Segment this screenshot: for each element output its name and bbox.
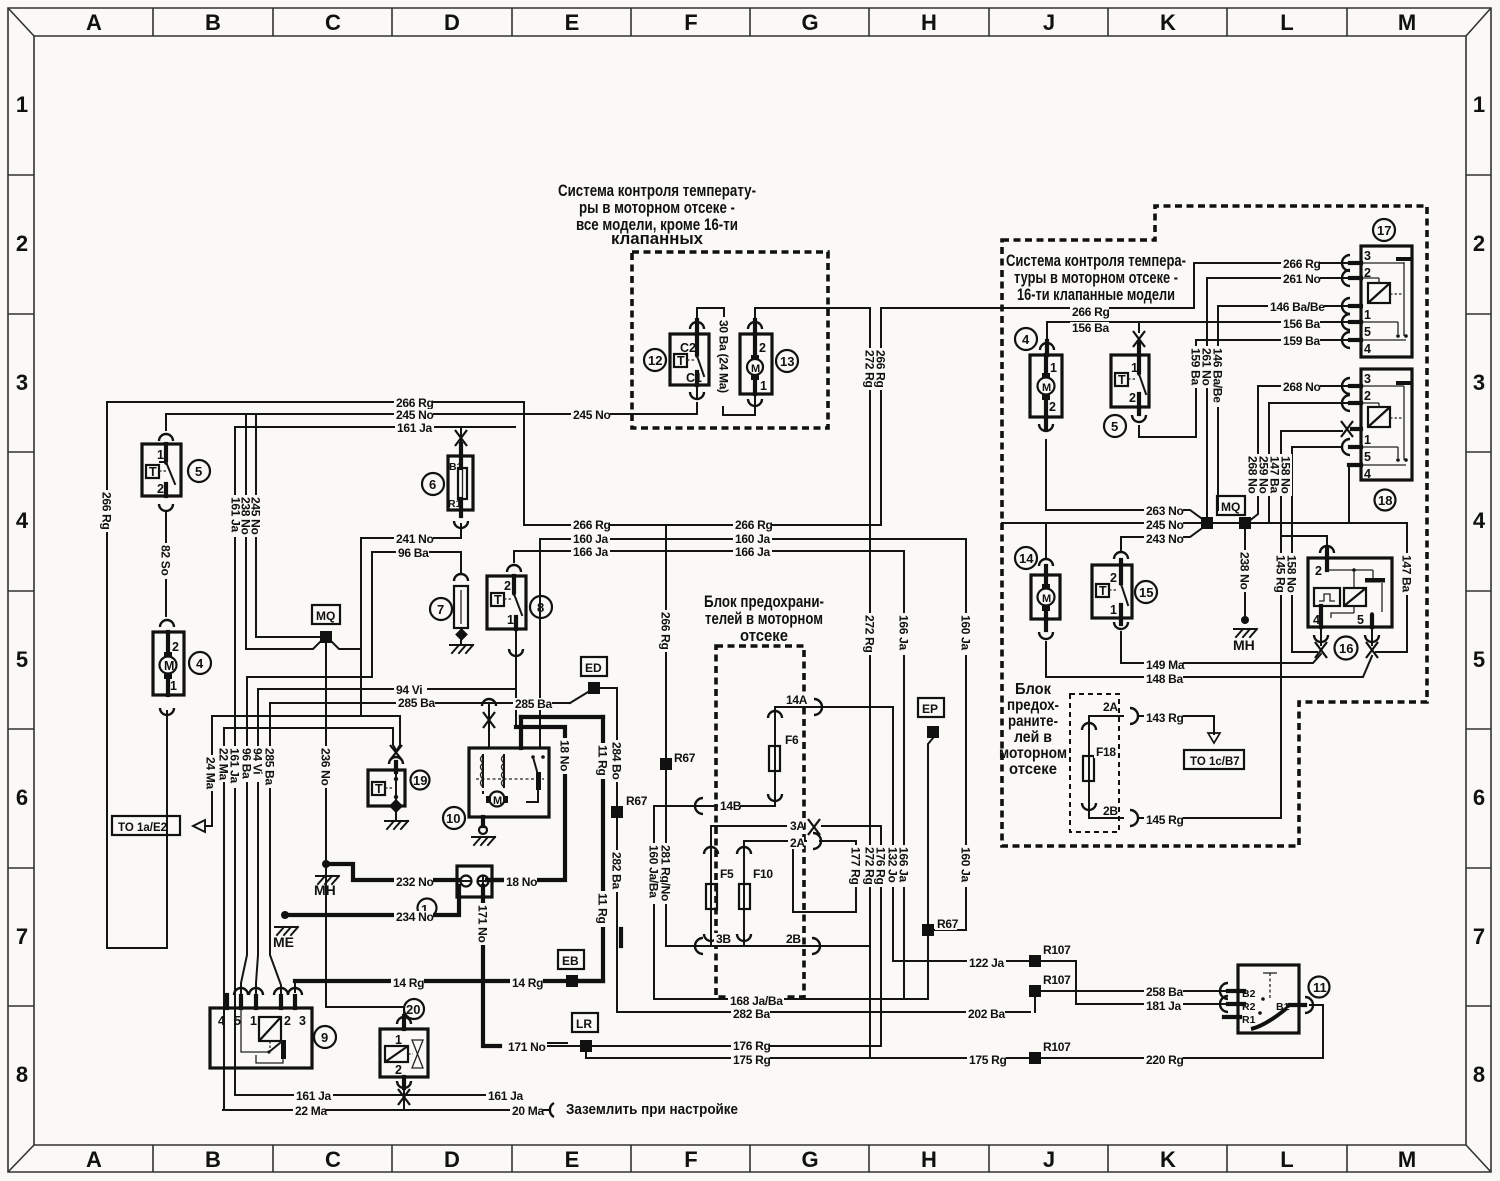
wire 272 Rg vertical [869, 308, 871, 1058]
wire comp10 pin2 top [519, 717, 523, 748]
svg-text:2: 2 [1110, 571, 1117, 585]
svg-text:148 Ba: 148 Ba [1146, 672, 1184, 686]
dashed box system all models [632, 252, 828, 428]
wire 259 No col [1269, 402, 1355, 404]
svg-text:TO 1a/E2: TO 1a/E2 [118, 822, 167, 834]
svg-text:R67: R67 [674, 751, 696, 765]
svg-text:4: 4 [196, 656, 204, 671]
svg-text:168 Ja/Ba: 168 Ja/Ba [730, 994, 783, 1008]
svg-text:K: K [1160, 1147, 1176, 1172]
svg-text:94 Vi: 94 Vi [251, 748, 265, 774]
X crossovers [390, 331, 1378, 1105]
svg-text:2: 2 [172, 640, 179, 654]
wire 14A row [775, 706, 893, 708]
label box + junction EP [927, 726, 939, 738]
svg-text:T: T [375, 782, 383, 796]
svg-text:149 Ma: 149 Ma [1146, 658, 1185, 672]
svg-text:241 No: 241 No [396, 532, 434, 546]
motor comp 14 [1031, 566, 1060, 630]
svg-text:2A: 2A [790, 836, 805, 850]
wire 94 Vi row [258, 688, 516, 690]
wire 11 Rg thick horizontal [521, 715, 603, 719]
rotated wire labels [100, 318, 1414, 945]
svg-text:T: T [1118, 373, 1126, 387]
svg-text:B: B [205, 10, 221, 35]
wire comp5r top [1138, 322, 1140, 332]
svg-text:E: E [565, 10, 580, 35]
svg-text:L: L [1280, 1147, 1293, 1172]
svg-text:R67: R67 [937, 917, 959, 931]
svg-text:245 No: 245 No [1146, 518, 1184, 532]
svg-text:160 Ja: 160 Ja [573, 532, 609, 546]
svg-text:166 Ja: 166 Ja [897, 615, 911, 651]
svg-text:R107: R107 [1043, 943, 1071, 957]
wire comp11 B1 loop [1310, 1005, 1323, 1058]
svg-text:T: T [494, 593, 502, 607]
wire fuse F18 [1088, 716, 1090, 818]
TO 1a/E2 box [112, 816, 180, 835]
svg-text:F: F [684, 1147, 697, 1172]
dashed box 16-valve system [1002, 206, 1427, 846]
svg-text:236 No: 236 No [319, 748, 333, 786]
svg-text:232 No: 232 No [396, 875, 434, 889]
circle 18 [1375, 490, 1396, 511]
switch T comp 12 [670, 320, 709, 398]
svg-text:3A: 3A [790, 819, 805, 833]
svg-text:ED: ED [585, 661, 602, 675]
svg-text:261 No: 261 No [1283, 272, 1321, 286]
svg-text:раните-: раните- [1008, 713, 1058, 730]
svg-text:G: G [801, 1147, 818, 1172]
svg-text:158 No: 158 No [1279, 456, 1293, 494]
wire 145 Rg row [1089, 817, 1123, 819]
wire c16 pin4 drop [1320, 627, 1322, 645]
svg-text:238 No: 238 No [1238, 552, 1252, 590]
title text all-models system [558, 181, 756, 248]
svg-text:234 No: 234 No [396, 910, 434, 924]
switch comp 11 [1224, 965, 1305, 1033]
circle 11 [1309, 977, 1330, 998]
circle 4 right [1015, 328, 1037, 350]
wire 171 No thick col [483, 897, 500, 1046]
wire comp4r top [1046, 322, 1048, 341]
wire 96 Ba row [372, 551, 461, 553]
svg-text:156 Ba: 156 Ba [1283, 317, 1321, 331]
circle 5 [188, 460, 210, 482]
wire fuse F10 [743, 841, 745, 946]
label box MQ left [312, 605, 340, 624]
svg-text:243 No: 243 No [1146, 532, 1184, 546]
title text 16-valve system [1006, 251, 1186, 304]
ground ME [275, 911, 298, 935]
wire 11 Rg thick vertical to EB [578, 717, 603, 981]
wire comp14 top [1045, 523, 1047, 558]
svg-text:10: 10 [446, 811, 460, 826]
wire 245 No column to MQ [256, 414, 320, 637]
svg-text:146 Ba/Be: 146 Ba/Be [1211, 348, 1225, 403]
title text fuse block center [704, 592, 824, 645]
wire comp15 bottom [1120, 632, 1122, 663]
svg-text:предох-: предох- [1007, 697, 1059, 714]
wire 22 Ma lower row [223, 1109, 548, 1111]
wire 159 Ba col to comp5r [1139, 340, 1196, 437]
wire 146 Ba/Be [1218, 305, 1355, 307]
motor comp 4 [153, 632, 184, 695]
svg-text:M: M [1042, 593, 1051, 605]
wire 266 Rg vertical A3-A5 [107, 402, 167, 948]
svg-text:K: K [1160, 10, 1176, 35]
svg-text:181 Ja: 181 Ja [1146, 999, 1182, 1013]
relay comp 17 [1350, 246, 1412, 357]
wire 161 Ja row [236, 426, 515, 428]
label box + junction LR [580, 1040, 592, 1052]
circle 7 [430, 598, 452, 620]
svg-text:175 Rg: 175 Rg [733, 1053, 771, 1067]
wire comp13 top to 272 Rg [755, 308, 870, 318]
svg-text:МН: МН [314, 882, 336, 898]
svg-text:14 Rg: 14 Rg [512, 976, 543, 990]
wire 245 No junction row [1002, 522, 1245, 524]
circle 5 right [1104, 415, 1126, 437]
svg-text:166 Ja: 166 Ja [735, 545, 771, 559]
wire 268 No col [1248, 386, 1258, 522]
wire 160 Ja/Ba col [653, 806, 655, 999]
svg-text:285 Ba: 285 Ba [398, 696, 436, 710]
wire comp6 top crossover [460, 427, 462, 456]
wire 285 Ba to ED square [570, 692, 588, 703]
svg-text:3: 3 [299, 1014, 306, 1028]
svg-text:EP: EP [922, 702, 938, 716]
junction squares MQ right [1201, 517, 1213, 529]
circle 13 [776, 350, 798, 372]
svg-text:лей в: лей в [1014, 729, 1052, 746]
ground comp10 [472, 837, 495, 845]
svg-text:3: 3 [1473, 370, 1485, 395]
wire 285 Ba row [270, 702, 570, 704]
circle 19 [411, 771, 430, 790]
wire 149 Ma row [1121, 654, 1321, 663]
connector comp 1 [457, 866, 492, 897]
svg-text:160 Ja: 160 Ja [959, 847, 973, 883]
svg-text:285 Ba: 285 Ba [515, 697, 553, 711]
svg-text:1: 1 [157, 448, 164, 462]
svg-text:11: 11 [1313, 980, 1327, 995]
svg-text:2: 2 [395, 1063, 402, 1077]
svg-text:20 Ma: 20 Ma [512, 1104, 544, 1118]
svg-text:266 Rg: 266 Rg [100, 492, 114, 530]
svg-text:14A: 14A [786, 693, 808, 707]
svg-text:МН: МН [1233, 637, 1255, 653]
wire c18 pin5 [1292, 446, 1342, 448]
svg-text:отсеке: отсеке [740, 626, 788, 645]
switch T comp 5 right [1111, 343, 1149, 414]
svg-text:18: 18 [1378, 493, 1392, 508]
svg-text:22 Ma: 22 Ma [295, 1104, 327, 1118]
svg-text:M: M [164, 659, 174, 673]
svg-text:G: G [801, 10, 818, 35]
svg-text:171 No: 171 No [476, 905, 490, 943]
svg-text:12: 12 [648, 353, 662, 368]
wire 158 No col [1292, 447, 1317, 652]
svg-text:1: 1 [760, 379, 767, 393]
svg-text:F10: F10 [753, 867, 773, 881]
svg-text:R1: R1 [1242, 1014, 1256, 1026]
svg-text:C1: C1 [686, 371, 702, 385]
svg-text:H: H [921, 10, 937, 35]
wire MQ right diagonal to 241No column [331, 641, 361, 649]
svg-text:175 Rg: 175 Rg [969, 1053, 1007, 1067]
wire comp6 bottom [460, 524, 462, 538]
svg-text:143 Rg: 143 Rg [1146, 711, 1184, 725]
circle 16 [1335, 637, 1358, 660]
circle 6 [422, 473, 444, 495]
svg-text:220 Rg: 220 Rg [1146, 1053, 1184, 1067]
circle 12 [644, 349, 666, 371]
svg-text:16-ти клапанные модели: 16-ти клапанные модели [1017, 285, 1175, 304]
svg-text:4: 4 [1364, 467, 1371, 481]
svg-text:161 Ja: 161 Ja [488, 1089, 524, 1103]
wire 175 Rg 220 Rg row [586, 1051, 1323, 1058]
motor comp 4 right [1030, 341, 1062, 428]
svg-text:263 No: 263 No [1146, 504, 1184, 518]
motor comp 13 [740, 320, 772, 403]
svg-text:7: 7 [16, 924, 28, 949]
resistor ballast comp 6 [448, 444, 473, 516]
svg-text:18 No: 18 No [506, 875, 537, 889]
fuse F10 [739, 884, 750, 909]
svg-text:4: 4 [1473, 508, 1486, 533]
wire 122 Ja to 181 Ja step [1041, 961, 1228, 1004]
svg-text:266 Rg: 266 Rg [874, 350, 888, 388]
svg-text:266 Rg: 266 Rg [573, 518, 611, 532]
svg-text:30 Ba (24 Ma): 30 Ba (24 Ma) [717, 320, 731, 393]
svg-text:E: E [565, 1147, 580, 1172]
wire ED square to 284 Bo col [600, 688, 617, 1012]
wire 146 Ba/Be col [1217, 306, 1219, 510]
wire fuse F5 [710, 826, 712, 946]
dashed box fuse block center [716, 646, 804, 997]
wire comp10 pin1 top [488, 703, 490, 748]
wire 232 No thick [326, 864, 459, 880]
svg-text:LR: LR [576, 1017, 592, 1031]
wire c18 pin4 col [1348, 465, 1350, 523]
svg-text:2: 2 [1315, 564, 1322, 578]
svg-text:R107: R107 [1043, 1040, 1071, 1054]
svg-text:6: 6 [16, 785, 28, 810]
wire 285 Ba column [270, 703, 281, 996]
svg-text:F5: F5 [720, 867, 734, 881]
circle 8 [530, 596, 552, 618]
fuse comp 7 [454, 586, 468, 645]
svg-text:14 Rg: 14 Rg [393, 976, 424, 990]
svg-text:2: 2 [16, 231, 28, 256]
svg-text:6: 6 [1473, 785, 1485, 810]
wire 156 Ba row [1047, 321, 1355, 323]
wire comp5L top [165, 414, 167, 430]
svg-text:245 No: 245 No [396, 408, 434, 422]
wire 168 Ja/Ba row [655, 998, 928, 1000]
wire 18 No comp1 right [487, 878, 521, 882]
svg-text:16: 16 [1339, 641, 1353, 656]
wire comp8 pin1 down [515, 629, 517, 727]
splice R107 squares [1029, 955, 1041, 967]
svg-text:284 Bo: 284 Bo [610, 742, 624, 780]
svg-text:3: 3 [1364, 372, 1371, 386]
svg-text:МЕ: МЕ [273, 934, 294, 950]
svg-text:5: 5 [1364, 325, 1371, 339]
svg-text:2B: 2B [786, 932, 801, 946]
svg-text:R107: R107 [1043, 973, 1071, 987]
svg-text:266 Rg: 266 Rg [1072, 305, 1110, 319]
wire 148 Ba row [1046, 656, 1372, 677]
ground MH right [1234, 616, 1257, 637]
svg-text:1: 1 [1364, 433, 1371, 447]
ground MH left [316, 860, 339, 884]
wire 22 Ma row comp19 [224, 728, 396, 750]
svg-text:14B: 14B [720, 799, 742, 813]
wire comp20 bottom to 22Ma row [403, 1090, 405, 1110]
svg-text:T: T [677, 354, 685, 368]
svg-text:82 So: 82 So [159, 545, 173, 576]
wire 266 Rg right of break [881, 307, 1002, 309]
wire 14 Rg thick row [295, 979, 603, 983]
wire 263 No row [1046, 510, 1205, 521]
svg-text:177 Rg: 177 Rg [849, 847, 863, 885]
svg-text:5: 5 [234, 1014, 241, 1028]
circle 20 [404, 999, 424, 1019]
svg-text:156 Ba: 156 Ba [1072, 321, 1110, 335]
svg-text:166 Ja: 166 Ja [573, 545, 609, 559]
wire 266 Rg vertical to row4 [880, 308, 882, 525]
half-moon connectors [550, 255, 1350, 1117]
svg-text:161 Ja: 161 Ja [228, 748, 242, 784]
svg-text:176 Rg: 176 Rg [874, 847, 888, 885]
svg-text:EB: EB [562, 954, 579, 968]
valve relay comp 20 [380, 1016, 428, 1088]
svg-text:MQ: MQ [316, 609, 335, 623]
wire 18 No thick [492, 727, 565, 880]
corner bevels [8, 8, 34, 36]
svg-text:TO 1c/B7: TO 1c/B7 [1190, 756, 1240, 768]
svg-text:A: A [86, 10, 102, 35]
TO 1c/B7 box [1184, 750, 1244, 769]
circle 15 [1135, 581, 1157, 603]
wire 245 No row [166, 413, 697, 415]
wire 266 Rg row D4 [524, 524, 881, 526]
wire comp7 top [460, 552, 462, 572]
svg-text:160 Ja: 160 Ja [959, 615, 973, 651]
wire 2A row left [744, 840, 806, 842]
svg-text:F6: F6 [785, 733, 799, 747]
svg-text:1: 1 [1110, 603, 1117, 617]
wire stub at 621 [619, 929, 623, 946]
svg-text:171 No: 171 No [508, 1040, 546, 1054]
svg-text:F: F [684, 10, 697, 35]
svg-text:18 No: 18 No [558, 740, 572, 771]
svg-text:1: 1 [1473, 92, 1485, 117]
svg-text:266 Rg: 266 Rg [1283, 257, 1321, 271]
wire 282 Ba row [618, 1011, 1030, 1013]
svg-text:2: 2 [1049, 400, 1056, 414]
wire 238 No to MH ground [1244, 523, 1246, 617]
svg-text:1: 1 [1050, 361, 1057, 375]
svg-text:3: 3 [16, 370, 28, 395]
svg-text:M: M [493, 795, 502, 807]
svg-text:L: L [1280, 10, 1293, 35]
svg-text:8: 8 [1473, 1062, 1485, 1087]
svg-text:96 Ba: 96 Ba [398, 546, 429, 560]
svg-text:M: M [751, 363, 760, 375]
wire c18 X pin [1281, 430, 1342, 432]
wire 147 Ba col [1376, 523, 1407, 652]
svg-text:8: 8 [537, 600, 544, 615]
svg-text:202 Ba: 202 Ba [968, 1007, 1006, 1021]
wire 3B 2B bottom row [667, 945, 870, 947]
svg-text:1: 1 [507, 613, 514, 627]
circle 4 [189, 652, 211, 674]
svg-text:2: 2 [1473, 231, 1485, 256]
wire 22 Ma column [223, 728, 225, 1110]
svg-text:J: J [1043, 10, 1055, 35]
switch T comp 15 [1092, 560, 1132, 624]
wire 266 Rg into right box [1002, 263, 1355, 308]
circle 1 [418, 899, 437, 918]
svg-text:245 No: 245 No [249, 497, 263, 535]
wire R107 drop to 282 Ba [1034, 997, 1036, 1012]
svg-text:146 Ba/Be: 146 Ba/Be [1270, 300, 1325, 314]
svg-text:M: M [1398, 10, 1416, 35]
svg-text:2: 2 [759, 341, 766, 355]
wire 171 No to LR [548, 1045, 581, 1047]
ground comp7 [450, 645, 473, 653]
svg-text:1: 1 [170, 679, 177, 693]
wire EP square down col [928, 738, 933, 999]
svg-text:2B: 2B [1103, 804, 1118, 818]
svg-text:C2: C2 [680, 341, 696, 355]
svg-text:M: M [1398, 1147, 1416, 1172]
svg-text:R67: R67 [626, 794, 648, 808]
svg-text:2: 2 [284, 1014, 291, 1028]
wire 241 No row [362, 537, 461, 539]
svg-text:B: B [205, 1147, 221, 1172]
motor assembly comp 10 [469, 748, 549, 834]
svg-text:7: 7 [1473, 924, 1485, 949]
svg-text:19: 19 [413, 773, 427, 788]
svg-text:F18: F18 [1096, 745, 1116, 759]
wire 266 Rg / 281 RgNo col F5-F6 [665, 525, 667, 946]
wire 241 No column [360, 538, 362, 716]
svg-text:C: C [325, 10, 341, 35]
wire 82 So comp5L to comp4L [165, 512, 167, 616]
svg-text:245 No: 245 No [573, 408, 611, 422]
svg-text:8: 8 [16, 1062, 28, 1087]
svg-text:161 Ja: 161 Ja [296, 1089, 332, 1103]
label box + junction ED [588, 682, 600, 694]
wire 145 Rg to comp16 pin2 [1281, 536, 1327, 546]
wire 160 Ja right col [965, 539, 967, 930]
svg-text:5: 5 [1357, 613, 1364, 627]
wire 143 Rg row [1089, 715, 1123, 717]
svg-text:20: 20 [406, 1002, 420, 1017]
wire 147Ba 145Rg col [1280, 431, 1282, 818]
wire comp15 top [1120, 537, 1122, 550]
title text fuse block right [999, 681, 1067, 778]
svg-text:клапанных: клапанных [611, 229, 704, 248]
circle 17 [1373, 219, 1395, 241]
svg-text:2: 2 [1364, 389, 1371, 403]
wire comp4L bottom column [166, 711, 168, 948]
wire 3A row left [711, 825, 786, 827]
